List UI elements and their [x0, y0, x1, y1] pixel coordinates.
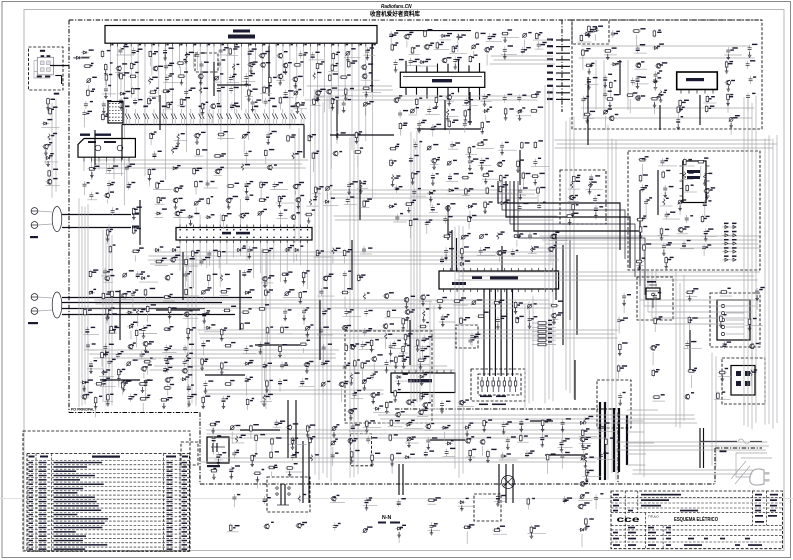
capacitor C54 — [535, 41, 547, 49]
capacitor C129 — [419, 356, 430, 372]
ground — [419, 364, 423, 370]
diode D7 — [153, 246, 163, 251]
IC201 pin 27 — [289, 43, 291, 46]
ground — [278, 202, 282, 208]
wire bus h — [209, 457, 600, 459]
bus wire IC501-CRT 3 — [494, 289, 496, 376]
transistor Q80 — [263, 522, 274, 530]
capacitor C97 — [317, 327, 333, 335]
parts table row 12 — [27, 512, 190, 514]
diode D48 — [395, 374, 413, 382]
capacitor C95 — [83, 327, 99, 335]
resistor R251 — [579, 428, 597, 437]
capacitor C177 — [214, 452, 226, 460]
T201 pin 2 — [91, 157, 93, 161]
capacitor C82 — [393, 213, 406, 222]
transistor Q22 — [173, 210, 190, 218]
resistor R264 — [370, 339, 379, 354]
capacitor C24 — [133, 98, 142, 106]
diode pair D213 — [235, 106, 241, 125]
ground — [401, 352, 405, 358]
IC501 pin 12 — [517, 268, 519, 271]
transistor Q82 — [649, 344, 659, 365]
ground — [397, 532, 401, 538]
capacitor C213 — [187, 384, 194, 392]
resistor R236 — [619, 342, 628, 355]
trimmer VR9 — [242, 132, 250, 153]
resistor R68 — [424, 29, 433, 38]
capacitor C50 — [389, 31, 398, 44]
transistor Q41 — [164, 274, 173, 281]
resistor R138 — [143, 357, 153, 374]
PCI outline bottom right ext — [618, 483, 715, 485]
T601 tap 1 — [627, 409, 658, 411]
capacitor C81 — [537, 202, 546, 211]
resistor R155 — [442, 232, 452, 238]
diode D2 — [118, 91, 130, 95]
resistor R192 — [703, 95, 716, 103]
power transformer T601 — [600, 402, 627, 480]
inductor L3 — [149, 77, 158, 85]
IC401 pin 8 — [226, 225, 228, 228]
IC201 pin 26 — [282, 43, 284, 46]
resistor R103 — [404, 200, 416, 206]
resistor R110 — [302, 270, 309, 286]
wire bus h — [201, 461, 597, 463]
wire bus v — [462, 226, 464, 473]
capacitor C182 — [443, 448, 456, 457]
wire bus h — [314, 95, 538, 97]
transistor Q77 — [479, 437, 491, 456]
capacitor C1 — [116, 46, 134, 55]
resistor R132 — [266, 326, 273, 343]
ground — [435, 103, 439, 109]
IC601 pin 6 — [429, 370, 431, 374]
diode pair D218 — [281, 109, 287, 125]
IC301 pin 1 — [405, 61, 407, 72]
diode D34 — [611, 61, 622, 66]
capacitor C67 — [414, 141, 423, 150]
connector CN301 pin 9 — [556, 92, 570, 94]
bus wire IC501-CRT 2 — [489, 289, 491, 376]
IC201 pin 18 — [227, 43, 229, 46]
resistor R203 — [483, 419, 492, 427]
capacitor C217 — [470, 333, 480, 347]
transistor Q50 — [120, 380, 132, 386]
capacitor C7 — [299, 51, 308, 59]
resistor R69 — [476, 31, 486, 39]
capacitor C173 — [426, 437, 437, 445]
capacitor C119 — [278, 378, 287, 392]
wire bold — [213, 62, 215, 96]
resistor R254 — [47, 97, 55, 114]
ground — [483, 208, 487, 214]
svg-text:ESQUEMA ELÉTRICO: ESQUEMA ELÉTRICO — [674, 515, 718, 523]
capacitor C6 — [248, 48, 257, 62]
parts table row 16 — [27, 529, 190, 531]
ground — [407, 442, 411, 448]
inductor L4 — [313, 72, 321, 80]
ground — [725, 68, 729, 74]
resistor R73 — [409, 45, 420, 54]
capacitor C33 — [347, 181, 358, 190]
label J102 — [28, 322, 38, 324]
inductor L28 — [233, 435, 246, 443]
resistor R268 — [417, 356, 430, 364]
ground — [589, 181, 593, 187]
outline segment x562 — [561, 20, 563, 112]
wire loop — [656, 270, 744, 324]
capacitor C75 — [446, 173, 459, 181]
capacitor C22 — [102, 100, 112, 109]
IC201 pin 13 — [192, 43, 194, 46]
IC201 pin 17 — [220, 43, 222, 46]
ground — [174, 204, 178, 210]
ground — [496, 501, 500, 507]
parts table row 5 — [27, 481, 190, 483]
capacitor C105 — [258, 341, 269, 349]
transistor Q90 — [181, 366, 193, 373]
capacitor C192 — [494, 494, 506, 502]
resistor R20 — [87, 89, 96, 98]
resistor R76 — [469, 55, 477, 64]
diode D101 — [74, 56, 82, 59]
T601 tap 2 — [627, 420, 644, 422]
wire bold — [587, 77, 589, 145]
wire bus v — [349, 137, 351, 477]
ground — [106, 400, 110, 406]
capacitor C136 — [496, 316, 507, 325]
inductor L34 — [584, 416, 593, 425]
resistor R266 — [354, 359, 360, 372]
capacitor C157 — [746, 60, 756, 69]
connector CN301 pin 7 — [556, 79, 570, 81]
wire bold — [498, 464, 500, 503]
ground — [393, 397, 397, 403]
IC601 pin 2 — [401, 370, 403, 374]
resistor R10 — [316, 61, 324, 70]
diode D47 — [44, 153, 58, 162]
wire bus v — [419, 141, 421, 402]
IC801 pin 1 — [680, 90, 682, 94]
resistor R120 — [84, 308, 92, 316]
wire loop — [640, 270, 760, 300]
wire J102 a — [62, 297, 252, 299]
wire bus v — [108, 225, 110, 399]
capacitor C198 — [653, 292, 661, 300]
wire bus h — [542, 239, 758, 241]
wire bus h — [546, 243, 759, 245]
IC301 pin 6 — [458, 60, 460, 73]
resistor R133 — [278, 326, 292, 334]
ground — [727, 86, 731, 92]
capacitor C91 — [302, 307, 309, 325]
inductor L31 — [750, 369, 757, 386]
resistor R243 — [133, 207, 142, 216]
ground — [168, 313, 172, 319]
trimmer VR10 — [522, 32, 531, 52]
wire tuner out2 — [55, 75, 61, 77]
ground — [82, 386, 86, 392]
ground — [500, 149, 504, 155]
capacitor C140 — [641, 184, 649, 192]
capacitor C220 — [593, 195, 600, 204]
wire bus v — [569, 118, 571, 394]
inductor L17 — [220, 274, 230, 282]
capacitor C195 — [333, 523, 341, 531]
ground — [371, 398, 375, 404]
resistor R244 — [106, 228, 113, 244]
trimmer VR16 — [201, 287, 212, 300]
capacitor C165 — [273, 419, 286, 427]
resistor R238 — [652, 369, 660, 377]
capacitor C14 — [227, 74, 239, 83]
wire bold — [371, 43, 373, 92]
parts table row 6 — [27, 486, 190, 488]
IC IC301 IF amplifier — [400, 72, 485, 87]
ground — [220, 335, 224, 341]
ground — [389, 350, 393, 356]
capacitor C10 — [164, 63, 174, 71]
inductor L12 — [292, 151, 302, 160]
wire bold — [444, 100, 446, 130]
top-right small box — [572, 20, 609, 44]
ground — [528, 323, 532, 329]
capacitor C55 — [394, 59, 404, 68]
resistor R119 — [341, 288, 352, 309]
capacitor C44 — [105, 165, 123, 173]
capacitor C218 — [469, 337, 477, 345]
transistor Q3 — [115, 63, 128, 72]
inductor L37 — [186, 352, 193, 360]
wire bold — [159, 95, 161, 130]
diode pair D216 — [263, 109, 269, 125]
trimmer VR29 — [230, 425, 241, 444]
ground — [142, 333, 146, 339]
resistor R118 — [299, 291, 307, 299]
resistor R247 — [131, 247, 144, 261]
resistor R183 — [603, 47, 616, 55]
capacitor C108 — [87, 360, 103, 369]
wire bus v — [322, 102, 324, 473]
diode pair D204 — [153, 109, 159, 125]
diode pair D217 — [272, 106, 278, 125]
resistor R151 — [402, 317, 409, 325]
wire bus v — [298, 128, 300, 242]
resistor R42 — [207, 196, 213, 205]
resistor R11 — [328, 63, 338, 72]
parts table row 1 — [27, 464, 190, 466]
ground — [654, 84, 658, 90]
wire bold — [139, 200, 141, 245]
diode pair D215 — [254, 106, 260, 125]
resistor R17 — [269, 76, 277, 92]
ground — [117, 72, 121, 78]
wire sound box v — [595, 60, 597, 109]
trimmer VR30 — [332, 424, 340, 431]
resistor R173 — [636, 215, 647, 221]
capacitor C125 — [389, 343, 396, 364]
wire loop — [652, 270, 748, 318]
ground — [688, 295, 692, 301]
capacitor C58 — [462, 98, 478, 106]
IC401 pin 15 — [273, 225, 275, 228]
ground — [568, 219, 572, 225]
diode D42 — [404, 454, 415, 459]
bus wire IC501-CRT 6 — [512, 289, 514, 376]
wire mains v1 — [699, 428, 701, 468]
capacitor C21 — [84, 101, 93, 109]
resistor R142 — [144, 379, 153, 400]
svg-text:cce: cce — [617, 515, 641, 524]
resistor R270 — [420, 392, 429, 400]
resistor R115 — [182, 287, 199, 296]
IC601 pin 3 — [408, 370, 410, 374]
ground — [245, 188, 249, 194]
resistor R9 — [293, 61, 304, 66]
trimmer VR8 — [258, 209, 268, 216]
bus wire video 1 — [555, 234, 557, 300]
resistor R253 — [585, 517, 594, 525]
wire bus v — [191, 255, 193, 404]
transistor Q42 — [261, 275, 274, 283]
capacitor C117 — [203, 380, 213, 388]
inductor L24 — [681, 171, 694, 179]
resistor R96 — [497, 174, 509, 182]
wire bus h — [554, 139, 771, 141]
resistor R124 — [223, 306, 237, 312]
wire bus h — [334, 215, 558, 217]
IC401 pin 7 — [219, 225, 221, 228]
ground — [385, 408, 389, 414]
wire bus h — [333, 189, 539, 191]
wire bus v — [78, 198, 80, 407]
T201 pin 7 — [128, 157, 130, 161]
wire bus v — [548, 90, 550, 399]
speaker connector AL-P08 — [207, 437, 229, 467]
ground — [486, 457, 490, 463]
ground — [291, 444, 295, 450]
bus wire IC501-CRT 4 — [500, 289, 502, 376]
transistor Q35 — [393, 95, 403, 103]
transistor Q94 — [347, 408, 357, 414]
label J101 — [30, 236, 38, 238]
IC501 pin 7 — [483, 268, 485, 271]
ground — [460, 505, 464, 511]
wire bus v — [195, 251, 197, 406]
wire bold — [530, 420, 553, 422]
capacitor C145 — [685, 215, 693, 223]
wire bus v — [524, 304, 526, 408]
diode D23 — [87, 289, 96, 295]
diode D18 — [447, 188, 462, 195]
capacitor C62 — [398, 110, 408, 118]
transistor Q79 — [330, 495, 345, 503]
resistor R271 — [573, 175, 581, 195]
resistor R77 — [415, 98, 422, 115]
parts table row 10 — [27, 503, 190, 505]
transformer T901 — [276, 484, 290, 505]
capacitor C78 — [516, 187, 527, 195]
ground — [245, 81, 249, 87]
transistor Q70 — [634, 95, 645, 100]
resistor R145 — [104, 393, 114, 401]
resistor R4 — [332, 52, 340, 67]
diode pair D206 — [171, 109, 177, 125]
transistor Q78 — [579, 437, 592, 444]
capacitor C215 — [370, 371, 378, 380]
resistor R70 — [501, 29, 520, 37]
resistor R5 — [83, 63, 94, 68]
wire bus h — [149, 369, 454, 371]
resistor R260 — [121, 381, 129, 396]
capacitor C3 — [163, 48, 174, 56]
resistor R172 — [683, 184, 697, 192]
wire bold — [689, 330, 691, 370]
capacitor C16 — [102, 85, 116, 94]
resistor R38 — [226, 183, 239, 188]
ground — [365, 427, 369, 433]
PCI outline left edge — [68, 20, 70, 413]
IC301 pin 8 — [479, 63, 481, 72]
wire loop — [648, 270, 752, 312]
AV jack J101 — [31, 207, 62, 232]
wire loop — [644, 270, 756, 306]
diode D44 — [395, 525, 406, 543]
wire bus v — [743, 97, 745, 425]
T201 pin 5 — [113, 157, 115, 161]
CRT drive box outer — [471, 369, 525, 401]
diode pair D219 — [291, 106, 297, 125]
capacitor C207 — [131, 289, 138, 311]
ground — [678, 205, 682, 211]
ground — [465, 431, 469, 437]
wire bold — [657, 170, 659, 215]
inductor L15 — [444, 108, 459, 116]
resistor R137 — [345, 344, 354, 352]
ground — [390, 461, 394, 467]
transistor Q84 — [684, 392, 695, 399]
IC801 pin 2 — [688, 90, 690, 94]
transistor Q49 — [303, 361, 313, 367]
inductor L36 — [48, 133, 57, 141]
ground — [316, 96, 320, 102]
capacitor C210 — [138, 351, 157, 359]
resistor R170 — [639, 174, 648, 182]
trimmer VR33 — [581, 453, 588, 460]
capacitor C122 — [187, 394, 197, 402]
wire bus v — [454, 227, 456, 469]
PCI outline corner v — [714, 448, 716, 484]
sound/IF module box — [572, 20, 762, 129]
ground — [453, 64, 457, 70]
IC201 pin 14 — [199, 43, 201, 46]
capacitor C159 — [746, 93, 756, 111]
diode D27 — [204, 324, 222, 332]
IC401 pin 20 — [306, 225, 308, 228]
transistor Q47 — [127, 342, 136, 349]
resistor R235 — [746, 318, 763, 326]
resistor R108 — [207, 274, 217, 287]
capacitor C8 — [309, 52, 324, 60]
IC201 pin 16 — [213, 43, 215, 46]
resistor R81 — [504, 107, 514, 115]
IC301 pin 5 — [447, 64, 449, 72]
wire bus v — [330, 89, 332, 482]
transistor Q71 — [608, 114, 618, 121]
wire bus v — [679, 283, 681, 428]
ground — [503, 37, 507, 43]
